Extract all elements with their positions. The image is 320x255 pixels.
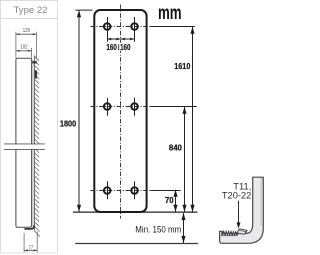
dim 77 extension left — [23, 233, 25, 252]
hole B3 — [131, 187, 138, 194]
dim 77 line — [24, 249, 37, 251]
hole row 3 centerline — [90, 190, 150, 192]
hole row 2 extension to dimension — [151, 106, 197, 108]
break band — [4, 144, 46, 149]
dim 129 line — [16, 33, 37, 35]
svg-text:160: 160 — [120, 42, 131, 52]
hole A3 — [104, 187, 111, 194]
bracket rail band behind panel — [32, 60, 34, 228]
hole row 3 extension to dimension — [151, 190, 181, 192]
hole A2 crosshair — [107, 98, 109, 116]
hole B3 crosshair — [134, 181, 136, 199]
dim 160 left inner arrow — [116, 38, 120, 41]
dim 1610 bottom arrow — [190, 205, 194, 212]
hole B1 — [131, 23, 138, 30]
dim 1610 line — [192, 27, 194, 212]
hole B1 crosshair — [134, 17, 136, 42]
svg-text:1610: 1610 — [174, 61, 190, 71]
dim 102 arrow left — [16, 50, 20, 52]
dim 70 top arrow — [173, 190, 177, 197]
dim 160 left line — [107, 38, 121, 40]
hole B2 crosshair — [134, 98, 136, 116]
dim 160 right line — [121, 38, 135, 40]
dim 102 arrow right — [28, 50, 32, 52]
hole A2 — [104, 103, 111, 110]
hole row 1 extension to dimension — [151, 26, 195, 28]
dim min150 bottom arrow — [181, 236, 185, 243]
plate bottom extension line — [73, 211, 197, 213]
dim 129 arrow left — [16, 33, 20, 35]
sidebar header divider — [1, 18, 58, 20]
dim 160 separator — [118, 44, 120, 50]
hole A3 crosshair — [107, 181, 109, 199]
dim 840 line — [184, 107, 186, 212]
break line lower — [4, 148, 45, 150]
bracket lip inner line — [221, 232, 223, 236]
dim 77 arrow right — [34, 249, 38, 251]
dim 160 label backing — [106, 43, 131, 51]
dim 129 extension left — [15, 32, 17, 58]
bracket teeth — [223, 231, 237, 235]
hole A1 crosshair — [107, 17, 109, 42]
bracket leader arrow — [237, 222, 241, 228]
dim 77 extension right — [36, 232, 38, 253]
break line upper — [4, 143, 45, 145]
dim 840 bottom arrow — [182, 205, 186, 212]
mounting plate — [94, 10, 146, 212]
dim 102 line — [16, 50, 32, 52]
plate top extension line — [75, 9, 92, 11]
svg-text:160: 160 — [106, 42, 117, 52]
dim 160 right outer arrow — [130, 38, 134, 41]
svg-text:102: 102 — [20, 44, 27, 50]
svg-text:mm: mm — [158, 3, 182, 24]
bracket clip tab — [237, 229, 247, 235]
wall bracket profile — [220, 177, 264, 243]
vertical centerline — [120, 5, 122, 219]
svg-text:129: 129 — [23, 28, 30, 34]
dim 1610 top arrow — [190, 27, 194, 34]
svg-text:T20-22: T20-22 — [222, 191, 251, 201]
svg-text:70: 70 — [165, 195, 174, 205]
bracket bar shade line — [260, 178, 262, 226]
top wall bracket mark — [32, 61, 37, 63]
svg-text:Type 22: Type 22 — [14, 5, 48, 16]
dim 160 right inner arrow — [121, 38, 125, 41]
dim min150 line — [183, 213, 185, 243]
hole row 2 centerline — [90, 106, 150, 108]
dim 77 arrow left — [24, 249, 28, 251]
dim min150 top arrow — [181, 213, 185, 220]
svg-text:77: 77 — [28, 245, 33, 251]
dim 129 arrow right — [33, 33, 37, 35]
wall hatching — [34, 56, 40, 237]
dim 102 extension right — [31, 48, 33, 58]
dim 1800 line — [78, 10, 80, 212]
top wall bracket body — [35, 70, 37, 78]
dim 840 top arrow — [182, 107, 186, 114]
bottom panel hook — [24, 225, 34, 229]
dim 1800 top arrow — [77, 10, 81, 17]
dim 70 line — [175, 190, 177, 212]
dim 160 left outer arrow — [107, 38, 111, 41]
dim 70 bottom arrow — [173, 205, 177, 212]
hole row 1 centerline — [90, 26, 150, 28]
svg-text:Min. 150 mm: Min. 150 mm — [135, 224, 181, 235]
bracket clip tab inner line — [239, 230, 246, 232]
svg-text:1800: 1800 — [60, 118, 77, 128]
hole A1 — [104, 23, 111, 30]
svg-text:840: 840 — [169, 143, 182, 153]
dim 129 extension right — [36, 32, 38, 60]
floor line — [75, 243, 198, 245]
sidebar frame — [1, 1, 58, 253]
bracket leader line — [238, 201, 240, 223]
radiator panel (side view) — [16, 58, 32, 227]
dim 1800 bottom arrow — [77, 205, 81, 212]
wire wall line (side view) — [33, 56, 35, 231]
hole B2 — [131, 103, 138, 110]
